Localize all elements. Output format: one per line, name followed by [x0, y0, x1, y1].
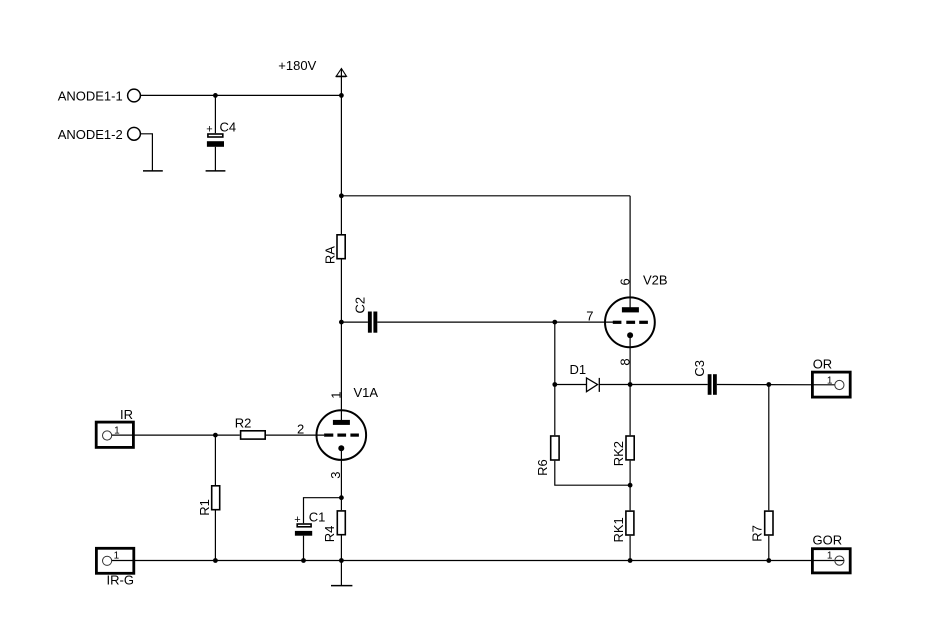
svg-text:OR: OR — [813, 357, 833, 372]
resistor RA — [323, 235, 346, 264]
node junction RK1/RK2 — [628, 483, 633, 488]
wire R6 to RK node — [555, 461, 630, 485]
wire net +180V horizontal — [141, 94, 342, 96]
wire RA to C2 node — [340, 259, 342, 322]
svg-text:RK2: RK2 — [611, 441, 626, 466]
svg-text:C2: C2 — [352, 297, 367, 314]
node junction V2B cathode / output — [628, 382, 633, 387]
resistor RK2 — [611, 436, 634, 466]
wire IR to R2 — [112, 434, 240, 436]
svg-text:ANODE1-2: ANODE1-2 — [58, 127, 123, 142]
wire cathode to R4 — [340, 498, 342, 510]
svg-text:6: 6 — [617, 278, 632, 285]
svg-text:2: 2 — [297, 421, 304, 436]
wire V2B cathode to D1 node — [629, 335, 631, 384]
capacitor C4 (polarized) — [206, 119, 236, 146]
ground symbol (ANODE1-2) — [143, 170, 163, 172]
svg-text:R2: R2 — [235, 416, 252, 431]
resistor R7 — [749, 511, 773, 542]
resistor R2 — [235, 416, 266, 439]
capacitor C3 — [692, 360, 717, 395]
wire R4 to ground net — [340, 536, 342, 561]
svg-text:V1A: V1A — [354, 385, 379, 400]
wire R7 drop — [768, 385, 770, 511]
wire C4 bottom — [214, 147, 216, 171]
ground symbol (main) — [331, 561, 352, 586]
wire C1 to ground net — [303, 536, 305, 561]
svg-text:7: 7 — [586, 309, 593, 324]
node junction R7/ground — [766, 558, 771, 563]
wire RK1 to ground net — [629, 536, 631, 561]
svg-text:1: 1 — [827, 375, 833, 386]
svg-text:R6: R6 — [535, 459, 550, 476]
node junction RK1/ground — [628, 558, 633, 563]
wire V1A cathode — [340, 448, 342, 497]
wire cathode node to RK2 — [629, 385, 631, 436]
node junction cathode — [339, 495, 344, 500]
svg-text:R7: R7 — [749, 525, 764, 542]
resistor R1 — [197, 486, 220, 516]
resistor R6 — [535, 436, 559, 476]
node junction R1/ground — [213, 558, 218, 563]
capacitor C1 (polarized) — [294, 509, 325, 535]
svg-text:IR-G: IR-G — [107, 573, 134, 588]
wire R2 to V1A grid — [266, 434, 324, 436]
connector ANODE1-1 — [58, 89, 141, 104]
node junction C1/ground — [301, 558, 306, 563]
svg-text:+180V: +180V — [278, 58, 316, 73]
tube V1A — [317, 385, 379, 460]
connector OR — [812, 357, 850, 398]
wire cathode to C1 — [304, 498, 342, 524]
wire C3 to OR — [717, 384, 835, 386]
svg-text:C3: C3 — [692, 360, 707, 377]
resistor R4 — [322, 511, 346, 542]
node junction R4/ground — [339, 558, 344, 563]
ground symbol (C4) — [206, 170, 226, 172]
wire +180V down to RA — [340, 95, 342, 234]
svg-text:R4: R4 — [322, 526, 337, 543]
svg-text:GOR: GOR — [813, 532, 843, 547]
capacitor C2 — [341, 297, 377, 333]
wire R1 top — [214, 435, 216, 485]
wire C4 top — [214, 95, 216, 133]
connector IR — [96, 407, 133, 448]
wire R6 branch drop — [554, 322, 556, 384]
wire ground net (bottom rail) — [112, 560, 845, 562]
svg-text:+: + — [206, 123, 212, 135]
node junction C2 tap — [339, 320, 344, 325]
svg-text:1: 1 — [827, 551, 833, 562]
wire ANODE1-2 to ground — [141, 134, 153, 171]
tube V2B — [605, 272, 668, 347]
wire RK2 to RK1 — [629, 461, 631, 511]
wire V1A pin1 drop — [340, 322, 342, 421]
svg-text:R1: R1 — [197, 499, 212, 516]
svg-text:C4: C4 — [220, 119, 237, 134]
svg-text:+: + — [294, 514, 300, 526]
node junction R6/D1 branch — [552, 320, 557, 325]
power symbol +180V — [278, 58, 346, 95]
node junction C4 tap — [213, 93, 218, 98]
node junction D1 anode — [552, 382, 557, 387]
wire R7 to ground net — [768, 536, 770, 561]
node junction anode branch — [339, 193, 344, 198]
node junction +180V corner — [339, 93, 344, 98]
wire D1 node to R6 — [554, 385, 556, 436]
wire V2B pin6 drop — [629, 196, 631, 308]
wire C2 to V2B grid — [377, 321, 613, 323]
connector IR-G — [96, 548, 134, 587]
diode D1 — [555, 362, 600, 392]
svg-text:ANODE1-1: ANODE1-1 — [58, 89, 123, 104]
svg-text:V2B: V2B — [643, 272, 668, 287]
connector GOR — [812, 532, 850, 573]
svg-text:IR: IR — [120, 407, 133, 422]
wire D1 to C3 — [599, 384, 707, 386]
wire R1 bottom — [214, 511, 216, 561]
svg-text:1: 1 — [328, 391, 343, 398]
svg-text:C1: C1 — [309, 509, 326, 524]
node junction R1 tap — [213, 433, 218, 438]
resistor RK1 — [611, 511, 634, 542]
node junction R7 tap — [766, 382, 771, 387]
svg-text:D1: D1 — [570, 362, 587, 377]
wire to V2B anode (horizontal) — [341, 195, 630, 197]
svg-text:RK1: RK1 — [611, 517, 626, 542]
svg-text:RA: RA — [323, 246, 338, 264]
connector ANODE1-2 — [58, 127, 141, 142]
